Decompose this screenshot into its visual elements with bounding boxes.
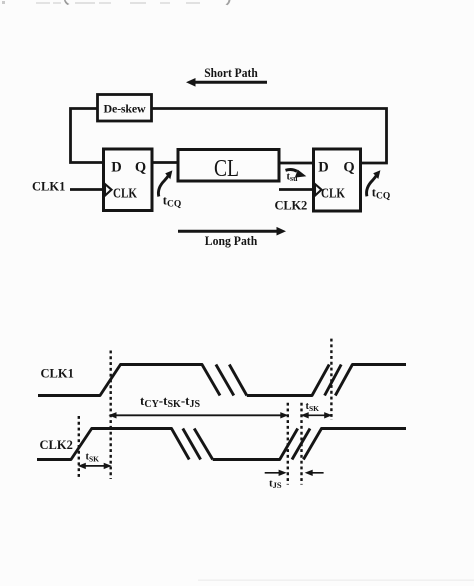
tCY-tSK-tJS annotation [109,393,289,419]
svg-text:CLK: CLK [113,187,137,202]
svg-text:tsu: tsu [287,172,299,184]
svg-text:CLK2: CLK2 [275,199,308,213]
dotted marker line: CLK2 second rise early [287,403,289,485]
wire: CLK2 to U2 clock [279,188,314,191]
wire: U1 Q to CL [152,161,178,164]
svg-text:CLK2: CLK2 [40,438,73,452]
short path arrow [186,78,267,87]
svg-text:tJS: tJS [269,478,282,491]
tsu arrow [286,170,307,183]
CL block [178,150,279,182]
wire: De-skew output down to FF1 D input [71,109,104,163]
svg-text:CLK1: CLK1 [41,367,74,381]
tJS annotation [265,470,324,490]
svg-text:D: D [318,160,328,176]
svg-text:CLK1: CLK1 [32,180,65,194]
wire: CLK1 to U1 clock [70,188,104,191]
wire: feedback from FF2 Q up and across to De-skew input [152,109,387,164]
dotted marker line: CLK1 second rise [330,339,332,420]
tCQ arrow U2 [367,170,391,201]
wire: CL to U2 D [279,162,314,165]
flip-flop U2 [314,149,361,211]
svg-text:CL: CL [214,156,239,182]
clock triangle U1 [105,184,112,196]
tCQ arrow U1 [158,170,181,209]
tSK annotation (left) [78,452,112,470]
de-skew block [98,95,152,122]
dotted marker line: CLK1 first rise [109,351,111,480]
svg-text:Long Path: Long Path [205,233,258,248]
svg-text:Short Path: Short Path [204,65,258,80]
clock triangle U2 [315,184,322,196]
dotted marker line: CLK2 second rise late [300,403,302,485]
svg-text:De-skew: De-skew [104,102,146,116]
svg-text:Q: Q [135,160,146,176]
CLK1 waveform [38,365,406,396]
CLK2 waveform [37,429,406,460]
faint scan artifact line at bottom [198,580,474,581]
svg-text:CLK: CLK [321,187,345,202]
flip-flop U1 [104,149,153,211]
svg-text:D: D [111,160,121,176]
tSK annotation (right) [301,401,333,419]
svg-text:Q: Q [343,160,354,176]
dotted marker line: CLK2 first rise [78,416,80,479]
cropped caption text remnants at top [2,0,231,5]
long path arrow [178,227,286,236]
